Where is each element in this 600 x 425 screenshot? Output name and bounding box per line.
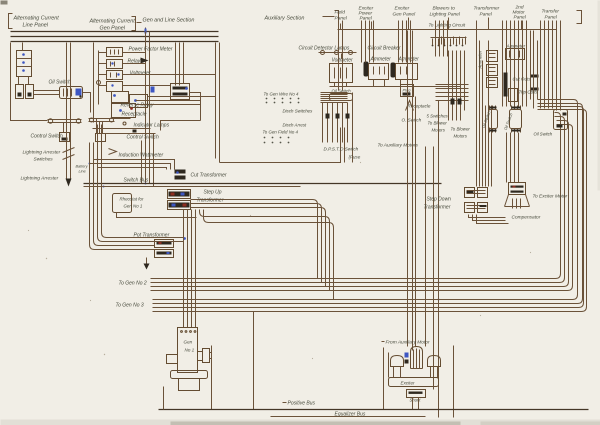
svg-text:5 Switches: 5 Switches (427, 114, 449, 119)
svg-text:Transfer: Transfer (542, 9, 560, 15)
svg-text:From Auxiliary Motor: From Auxiliary Motor (386, 340, 430, 346)
svg-text:Disch Switches: Disch Switches (283, 109, 314, 114)
svg-text:Ammeter: Ammeter (370, 57, 392, 63)
svg-text:O. Switch: O. Switch (402, 118, 422, 123)
svg-text:Panel: Panel (514, 15, 527, 21)
svg-text:Receptacle: Receptacle (122, 112, 147, 118)
svg-text:Exciter: Exciter (401, 381, 416, 386)
svg-text:To Gen No 3: To Gen No 3 (116, 303, 144, 309)
svg-text:Blowers to: Blowers to (433, 6, 456, 12)
svg-text:Plug: Plug (403, 88, 412, 93)
svg-text:To Blower: To Blower (428, 121, 448, 126)
svg-text:Transformer: Transformer (424, 205, 451, 211)
svg-text:Cut Outs: Cut Outs (513, 77, 532, 82)
svg-text:Oil Switch: Oil Switch (534, 132, 553, 137)
svg-text:Line Panel: Line Panel (23, 23, 49, 29)
svg-text:Line: Line (79, 170, 86, 174)
svg-text:Gen No 1: Gen No 1 (124, 204, 143, 209)
svg-text:Field: Field (335, 10, 346, 16)
svg-text:Ammeter: Ammeter (478, 50, 483, 69)
svg-text:Step Down: Step Down (427, 197, 452, 203)
svg-text:Trip Coils: Trip Coils (519, 90, 539, 95)
svg-text:To Exciter Motor: To Exciter Motor (533, 194, 568, 200)
svg-text:Receptacle: Receptacle (408, 104, 431, 109)
svg-text:To Gen Field No 4: To Gen Field No 4 (263, 130, 299, 135)
svg-text:Gen Panel: Gen Panel (100, 26, 126, 32)
svg-text:Lighting Panel: Lighting Panel (430, 12, 461, 18)
svg-text:{Fuse: {Fuse (349, 155, 361, 160)
svg-text:Battery: Battery (76, 165, 89, 169)
svg-text:To Blower: To Blower (451, 127, 471, 132)
svg-text:Gen: Gen (184, 340, 193, 345)
svg-text:Indicator Lamps: Indicator Lamps (134, 123, 170, 129)
svg-text:Lightning Arrester: Lightning Arrester (21, 176, 59, 182)
svg-text:Transformer: Transformer (474, 6, 500, 12)
svg-text:Alternating Current: Alternating Current (13, 16, 60, 22)
svg-text:Disch Arrest: Disch Arrest (283, 123, 308, 128)
svg-text:Ammeter: Ammeter (398, 57, 420, 63)
svg-text:Gen Panel: Gen Panel (393, 12, 417, 18)
svg-text:Alternating Current: Alternating Current (89, 19, 136, 25)
svg-text:D.P.S.T.O Switch: D.P.S.T.O Switch (324, 147, 359, 152)
svg-text:Panel: Panel (480, 12, 493, 18)
svg-text:Control Switch: Control Switch (31, 134, 63, 140)
svg-text:Panel: Panel (335, 16, 348, 22)
svg-text:No 1: No 1 (185, 348, 195, 353)
svg-text:Cut Transformer: Cut Transformer (191, 173, 227, 179)
svg-text:Positive Bus: Positive Bus (288, 401, 316, 407)
svg-text:Circuit Breaker: Circuit Breaker (368, 46, 401, 52)
svg-text:Switch Bus: Switch Bus (124, 178, 149, 184)
svg-text:Reverse Relay: Reverse Relay (121, 103, 154, 109)
svg-text:Induction Wattmeter: Induction Wattmeter (119, 153, 164, 159)
svg-text:Control Switch: Control Switch (127, 135, 159, 141)
svg-text:Step Up: Step Up (204, 190, 222, 196)
svg-text:Switches: Switches (34, 157, 54, 163)
svg-text:Transformer: Transformer (197, 198, 224, 204)
svg-text:To Gen Wire No 4: To Gen Wire No 4 (264, 92, 299, 97)
svg-text:Panel: Panel (545, 15, 558, 21)
svg-text:Power Factor Meter: Power Factor Meter (129, 47, 173, 53)
svg-text:Gen and Line Section: Gen and Line Section (143, 18, 195, 24)
svg-text:Rheostat for: Rheostat for (120, 197, 144, 202)
svg-text:Exciter: Exciter (395, 6, 410, 12)
svg-text:Voltmeter: Voltmeter (130, 71, 152, 77)
svg-text:Compensator: Compensator (512, 215, 541, 221)
svg-text:Auxiliary Section: Auxiliary Section (264, 16, 305, 22)
svg-text:To Gen No 2: To Gen No 2 (119, 281, 147, 287)
svg-text:Lightning Arrester: Lightning Arrester (23, 150, 61, 156)
svg-text:Shunt: Shunt (410, 398, 422, 403)
svg-text:Oil Switch: Oil Switch (49, 80, 71, 86)
svg-text:Motors: Motors (454, 134, 468, 139)
